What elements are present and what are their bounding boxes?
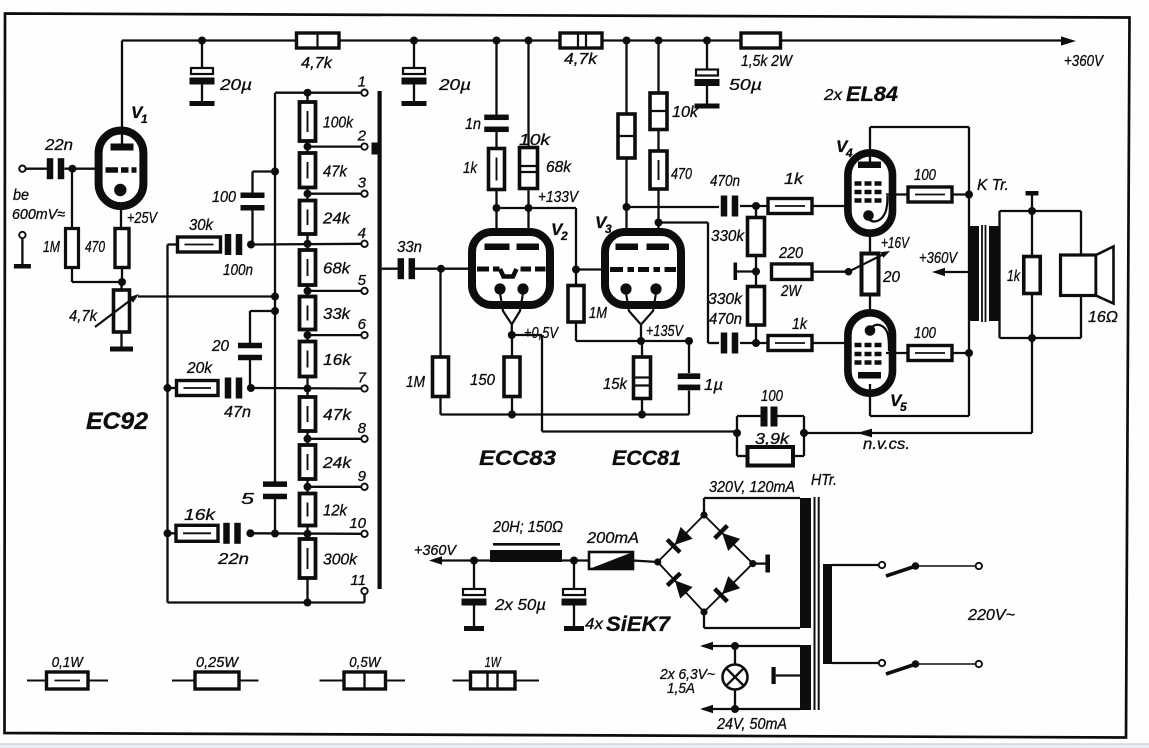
svg-text:ECC83: ECC83 — [479, 447, 556, 470]
svg-text:1,5k 2W: 1,5k 2W — [741, 53, 794, 70]
svg-text:+360V: +360V — [414, 542, 458, 559]
svg-text:47k: 47k — [323, 407, 352, 424]
svg-text:SiEK7: SiEK7 — [606, 613, 671, 636]
svg-text:+133V: +133V — [538, 189, 579, 206]
svg-text:10: 10 — [349, 515, 366, 532]
svg-text:24k: 24k — [322, 455, 352, 472]
svg-text:220: 220 — [778, 245, 803, 262]
svg-text:1k: 1k — [1007, 268, 1021, 285]
svg-text:100k: 100k — [323, 115, 354, 132]
svg-text:47k: 47k — [323, 163, 348, 180]
svg-text:1W: 1W — [485, 654, 502, 671]
svg-text:68k: 68k — [546, 159, 572, 176]
svg-text:20: 20 — [211, 338, 229, 355]
svg-text:20k: 20k — [186, 360, 213, 377]
svg-text:4,7k: 4,7k — [564, 51, 598, 68]
svg-text:4,7k: 4,7k — [301, 55, 333, 72]
svg-text:16Ω: 16Ω — [1088, 309, 1118, 326]
svg-text:10k: 10k — [672, 104, 699, 121]
svg-text:+16V: +16V — [881, 235, 910, 252]
svg-text:47n: 47n — [224, 404, 251, 421]
svg-text:5: 5 — [241, 491, 254, 508]
svg-text:1: 1 — [141, 112, 148, 126]
svg-text:330k: 330k — [711, 228, 745, 245]
svg-text:470n: 470n — [710, 173, 740, 190]
svg-text:470n: 470n — [709, 311, 742, 328]
svg-text:4x: 4x — [585, 616, 604, 633]
svg-text:68k: 68k — [323, 261, 351, 278]
svg-text:3,9k: 3,9k — [755, 431, 790, 448]
svg-text:22n: 22n — [44, 137, 73, 154]
svg-text:200mA: 200mA — [586, 530, 639, 547]
svg-text:4: 4 — [845, 146, 853, 160]
svg-text:20µ: 20µ — [219, 77, 252, 94]
svg-text:2: 2 — [357, 128, 367, 145]
svg-text:1k: 1k — [463, 160, 478, 177]
svg-text:0,5W: 0,5W — [349, 654, 382, 671]
svg-text:+135V: +135V — [646, 323, 684, 340]
svg-text:600mV≈: 600mV≈ — [12, 206, 65, 223]
svg-text:20µ: 20µ — [438, 77, 471, 94]
svg-text:1M: 1M — [43, 239, 61, 256]
svg-text:EL84: EL84 — [846, 83, 898, 106]
svg-text:4: 4 — [358, 225, 366, 242]
svg-text:4,7k: 4,7k — [69, 308, 98, 325]
svg-text:3: 3 — [358, 175, 367, 192]
svg-text:ECC81: ECC81 — [612, 447, 681, 470]
svg-text:1M: 1M — [406, 374, 426, 391]
svg-text:+360V: +360V — [1064, 53, 1104, 70]
svg-text:30k: 30k — [189, 217, 214, 234]
svg-text:K Tr.: K Tr. — [977, 177, 1009, 194]
svg-text:9: 9 — [358, 468, 367, 485]
svg-text:0,25W: 0,25W — [196, 654, 240, 671]
svg-text:33n: 33n — [397, 239, 422, 256]
svg-text:470: 470 — [85, 239, 105, 256]
svg-text:50µ: 50µ — [729, 77, 762, 94]
svg-text:1k: 1k — [792, 316, 808, 333]
svg-text:100: 100 — [761, 388, 783, 405]
svg-text:HTr.: HTr. — [811, 472, 837, 489]
svg-text:0,1W: 0,1W — [52, 654, 85, 671]
svg-text:7: 7 — [358, 370, 367, 387]
svg-text:220V~: 220V~ — [967, 607, 1015, 624]
svg-text:10k: 10k — [519, 132, 551, 149]
svg-text:22n: 22n — [217, 551, 249, 568]
svg-text:2x: 2x — [823, 87, 843, 104]
svg-text:16k: 16k — [323, 352, 352, 369]
svg-text:8: 8 — [358, 420, 367, 437]
svg-text:24k: 24k — [322, 210, 351, 227]
svg-text:+25V: +25V — [127, 210, 158, 227]
svg-text:15k: 15k — [603, 376, 628, 393]
svg-text:33k: 33k — [323, 306, 351, 323]
svg-text:3: 3 — [605, 222, 612, 236]
svg-text:1,5A: 1,5A — [667, 680, 695, 697]
svg-text:150: 150 — [470, 372, 495, 389]
svg-text:320V, 120mA: 320V, 120mA — [709, 479, 795, 496]
svg-text:16k: 16k — [184, 507, 216, 524]
svg-text:EC92: EC92 — [86, 408, 149, 435]
svg-text:300k: 300k — [323, 552, 358, 569]
svg-text:12k: 12k — [323, 503, 348, 520]
svg-text:1: 1 — [358, 74, 366, 91]
svg-text:1n: 1n — [465, 116, 481, 133]
svg-text:+360V: +360V — [919, 250, 958, 267]
svg-text:100: 100 — [914, 325, 936, 342]
svg-text:5: 5 — [358, 272, 367, 289]
svg-text:20H; 150Ω: 20H; 150Ω — [492, 519, 563, 536]
svg-text:1µ: 1µ — [704, 377, 723, 394]
svg-text:2: 2 — [560, 229, 568, 243]
svg-text:be: be — [13, 187, 29, 204]
svg-text:100: 100 — [212, 189, 236, 206]
svg-text:100: 100 — [914, 167, 936, 184]
svg-text:20: 20 — [882, 269, 900, 286]
svg-text:1M: 1M — [589, 305, 608, 322]
svg-text:5: 5 — [900, 400, 907, 414]
svg-text:470: 470 — [671, 166, 692, 183]
svg-text:2x 50µ: 2x 50µ — [494, 597, 546, 614]
svg-text:2W: 2W — [780, 283, 802, 300]
svg-text:6: 6 — [358, 316, 367, 333]
svg-text:24V, 50mA: 24V, 50mA — [716, 716, 787, 733]
svg-text:330k: 330k — [708, 291, 743, 308]
svg-text:100n: 100n — [223, 262, 253, 279]
svg-text:1k: 1k — [784, 171, 804, 188]
svg-text:n.v.cs.: n.v.cs. — [863, 436, 910, 453]
svg-text:11: 11 — [350, 572, 366, 589]
